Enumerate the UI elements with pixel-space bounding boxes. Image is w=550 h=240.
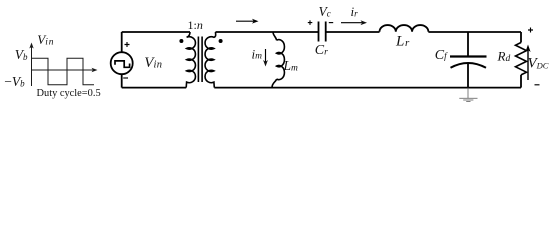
svg-text:Lr: Lr — [395, 34, 410, 50]
wire primary top — [122, 31, 190, 33]
VDC plus sign — [528, 28, 533, 33]
ground bar 2 — [463, 99, 473, 101]
wire Cr to Lr — [326, 31, 380, 33]
transformer T1 primary winding — [186, 32, 195, 88]
transformer polarity dot secondary — [219, 39, 223, 43]
VDC minus sign — [535, 84, 540, 86]
current ir arrow — [341, 22, 363, 24]
svg-text:Duty cycle=0.5: Duty cycle=0.5 — [37, 88, 101, 99]
transformer T1 secondary winding — [205, 32, 216, 88]
ground bar 1 — [459, 97, 477, 99]
wire secondary top — [216, 31, 319, 33]
ground bar 3 — [466, 101, 470, 103]
voltage source Vin: bottom lead — [121, 74, 123, 87]
capacitor Cf bottom lead — [467, 63, 469, 88]
transformer core line right — [201, 37, 203, 83]
voltage source minus sign — [123, 77, 128, 79]
svg-text:1:n: 1:n — [188, 18, 203, 32]
capacitor Cr left plate — [318, 22, 320, 42]
resistor Rd bottom lead — [520, 75, 522, 88]
transformer polarity dot primary — [179, 39, 183, 43]
transformer core line left — [197, 37, 199, 83]
inductor Lm coil — [277, 40, 285, 80]
wire Lr to right corner — [428, 31, 521, 33]
voltage source Vin: circle — [111, 52, 133, 74]
waveform horizontal axis with arrow — [32, 69, 94, 71]
VDC arrow — [527, 50, 529, 81]
current arrow after transformer — [236, 20, 254, 22]
capacitor Cr plus sign — [308, 20, 313, 25]
capacitor Cf top lead — [467, 32, 469, 57]
capacitor Cf flat plate — [450, 55, 487, 57]
current im arrow — [265, 49, 267, 62]
capacitor Cr right plate — [325, 22, 327, 42]
capacitor Cf curved plate — [451, 63, 487, 68]
square wave trace — [32, 58, 95, 85]
voltage source plus sign — [125, 42, 130, 47]
inductor Lr coil — [380, 25, 429, 32]
resistor Rd zigzag — [516, 43, 527, 75]
resistor Rd top lead — [520, 32, 522, 43]
inductor Lm branch top lead — [273, 32, 277, 40]
wire secondary bottom — [214, 87, 521, 89]
wire primary bottom — [122, 87, 187, 89]
waveform vertical axis arrowhead — [29, 43, 33, 49]
waveform horizontal axis arrowhead — [92, 68, 98, 72]
voltage source Vin: square-wave glyph — [115, 61, 130, 67]
voltage source Vin: top lead — [121, 32, 123, 52]
waveform vertical axis with arrow — [31, 47, 33, 87]
inductor Lm bottom lead — [272, 79, 277, 88]
ground stub — [467, 88, 469, 98]
capacitor Cr minus sign — [329, 22, 333, 24]
svg-text:Cf: Cf — [435, 48, 448, 63]
